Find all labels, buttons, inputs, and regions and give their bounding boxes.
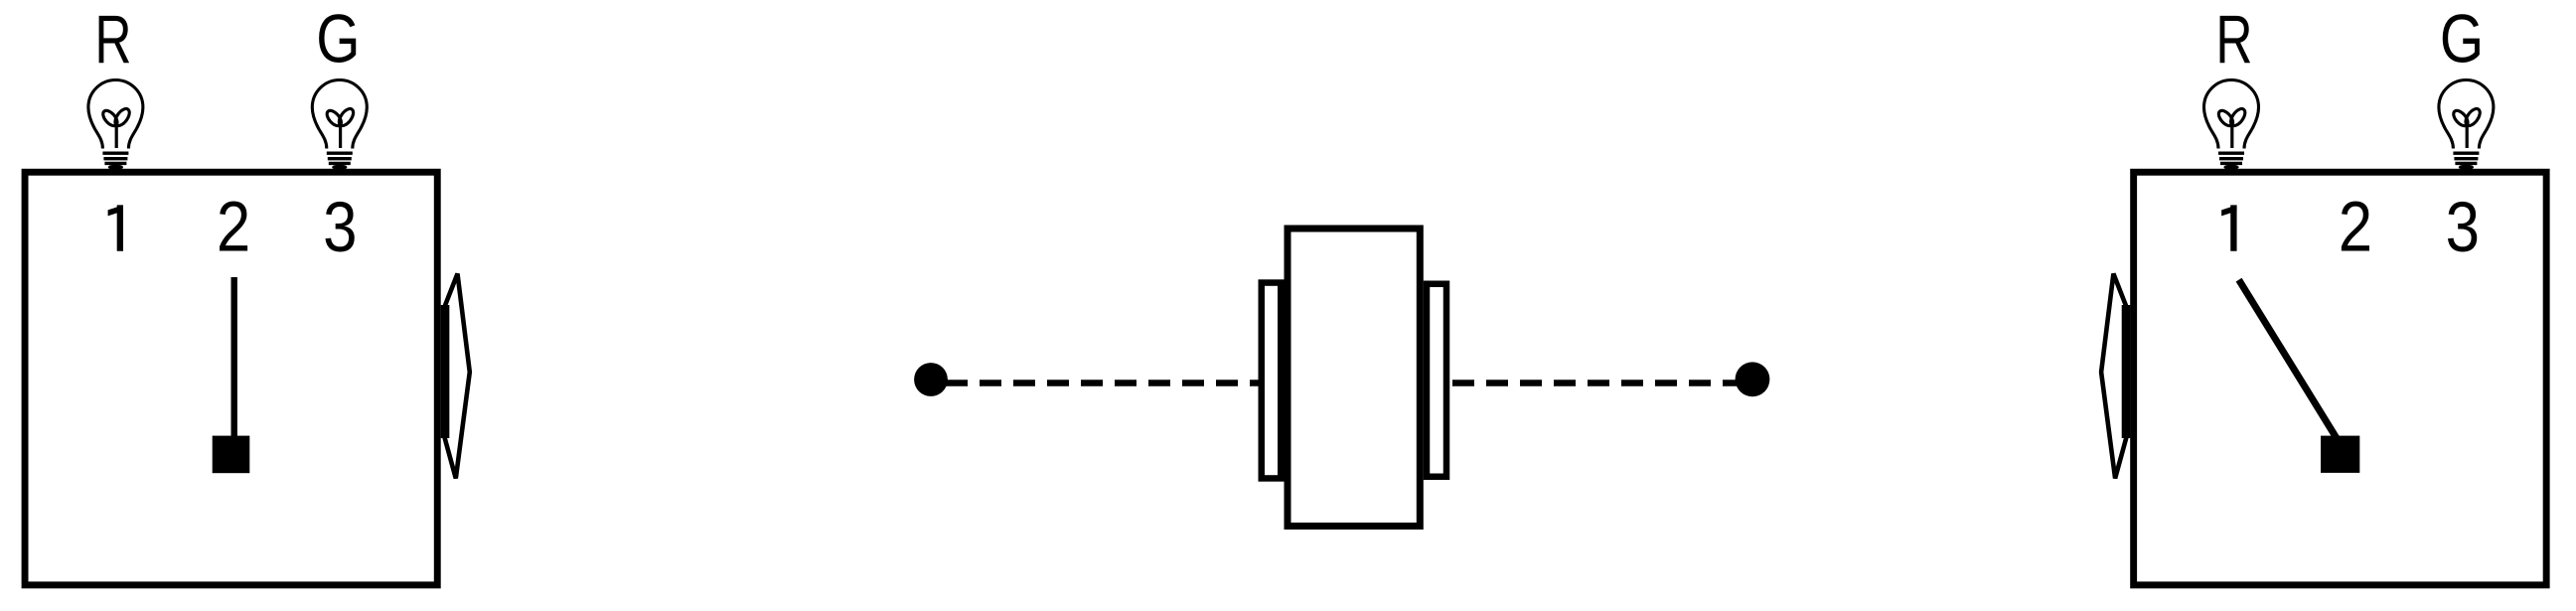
box left station	[25, 172, 437, 585]
svg-text:R: R	[94, 1, 131, 77]
dashed wire right	[1452, 380, 1752, 385]
svg-text:G: G	[316, 2, 360, 77]
sounder horn left station	[444, 274, 470, 479]
svg-text:G: G	[2440, 2, 2484, 77]
switch knob right station	[2321, 436, 2359, 473]
node dot right	[1736, 362, 1770, 396]
lamp R right station	[2204, 80, 2259, 171]
sounder horn right station	[2101, 274, 2127, 479]
feed-through left flange	[1262, 283, 1282, 479]
node dot left	[914, 363, 948, 396]
switch knob left station	[213, 436, 250, 474]
svg-text:2: 2	[2339, 189, 2372, 267]
switch lever left station	[230, 277, 236, 438]
box right station	[2134, 172, 2547, 585]
feed-through right flange	[1427, 284, 1446, 477]
terminal label 1 right station	[2221, 205, 2236, 250]
svg-text:2: 2	[217, 189, 250, 267]
lamp G left station	[312, 80, 367, 171]
terminal label 1 left station	[108, 205, 123, 250]
dashed wire left	[934, 380, 1272, 385]
svg-text:R: R	[2215, 1, 2252, 77]
svg-text:3: 3	[323, 189, 357, 267]
feed-through center block	[1288, 229, 1420, 527]
switch lever right station	[2239, 280, 2337, 438]
lamp R left station	[88, 80, 143, 171]
lamp G right station	[2439, 80, 2494, 171]
svg-text:3: 3	[2446, 189, 2480, 267]
